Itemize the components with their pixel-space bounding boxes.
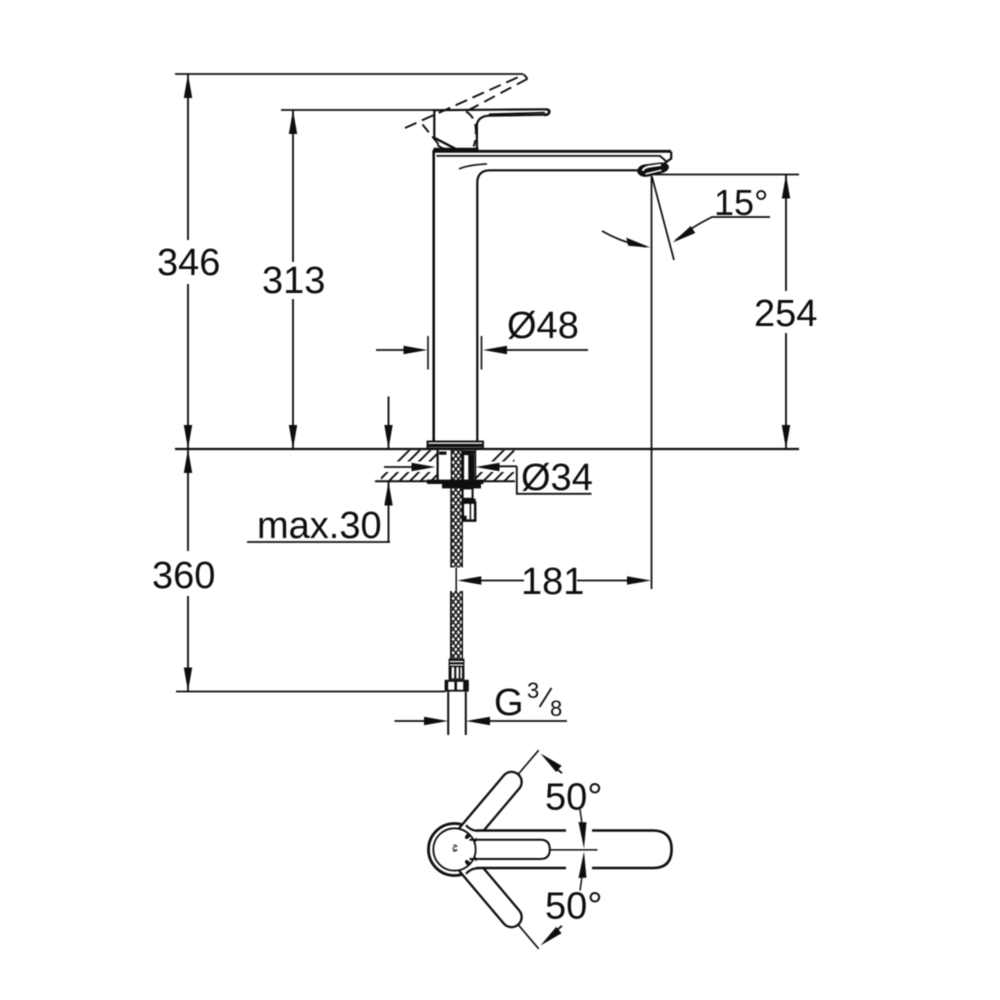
side fitting upper tube: [463, 488, 473, 498]
mounting flange bar: [427, 480, 484, 484]
15 degree slanted line: [652, 176, 674, 260]
flexible hose braid upper segment: [451, 488, 462, 567]
svg-text:max.30: max.30: [257, 505, 382, 547]
lock nut bar: [442, 484, 481, 488]
spout top edge: [433, 150, 672, 153]
leader step for diameter 34 label: [517, 466, 592, 494]
hub screw dot upper: [464, 832, 471, 840]
svg-text:G: G: [494, 682, 524, 724]
handle lever rounded tip: [544, 109, 549, 115]
dimension line 346: [187, 74, 189, 449]
side fitting band: [463, 499, 476, 503]
flexible hose braid lower segment: [451, 591, 463, 659]
raised handle dashed left edge: [423, 125, 442, 149]
faucet base plate: [428, 442, 484, 449]
swivel arc with arrow: [602, 231, 646, 247]
grohe logo mark: [453, 845, 457, 851]
witness tick right for diameter 48: [481, 336, 483, 370]
50 degree reference line upper: [474, 750, 539, 826]
50 degree reference line lower: [474, 873, 539, 949]
raised handle dashed top line: [405, 75, 524, 129]
extension line top (346 upper reference): [175, 73, 523, 75]
dimension max.30 upper arrow: [388, 397, 390, 450]
gaps in lever edges for angle arrows: [566, 828, 592, 833]
angle center line: [550, 849, 598, 851]
extension line handle top (313 upper reference): [281, 109, 436, 111]
handle lever underside inner line: [489, 113, 545, 115]
svg-text:50°: 50°: [545, 886, 602, 928]
hose break center line: [455, 568, 457, 592]
side fitting lower block: [463, 503, 475, 521]
svg-text:313: 313: [262, 260, 325, 302]
spout shoulder arc: [459, 164, 487, 169]
svg-text:254: 254: [754, 293, 817, 335]
rotated lever lower: [460, 856, 512, 918]
svg-text:8: 8: [550, 696, 562, 721]
dimension line 254: [785, 175, 787, 450]
witness tick left for diameter 48: [427, 336, 429, 370]
dimension line 313: [292, 110, 294, 449]
hose crimp collar: [449, 659, 465, 680]
mounting stud body: [463, 454, 474, 480]
spout right tip edge: [664, 152, 672, 165]
handle lever underside: [477, 115, 545, 148]
raised handle dashed bottom line: [466, 79, 528, 112]
svg-text:3: 3: [527, 678, 539, 703]
handle hub outer circle: [429, 824, 481, 876]
handle base left edge: [433, 109, 435, 138]
lever neck fillet bottom: [466, 868, 479, 874]
dimension line 181: [480, 580, 524, 582]
dimension line diameter 48: [376, 349, 405, 351]
angle arrow at center line upper: [579, 822, 587, 849]
15 degree leader line with arrow: [676, 217, 771, 241]
extension line spout outlet (254 upper reference): [654, 174, 799, 176]
dimension line G3/8: [395, 720, 426, 722]
connection tube below nut: [448, 692, 466, 735]
aerator outlet: [638, 163, 668, 176]
raised handle dashed neck curve: [466, 112, 476, 147]
dimension max.30 lower arrow and leader: [388, 482, 390, 543]
svg-text:360: 360: [152, 555, 215, 597]
rotated lever upper: [460, 782, 512, 844]
countertop surface line: [175, 448, 799, 450]
mounting hole right wall: [474, 450, 476, 481]
vertical reference line below outlet: [651, 176, 653, 589]
lever neck fillet top: [466, 825, 479, 831]
angle arrow at center line lower: [579, 852, 587, 879]
handle base slant edge: [434, 138, 456, 149]
angle arrow upper end: [541, 754, 562, 773]
hub screw dot lower: [464, 859, 471, 867]
straight lever outline: [477, 831, 672, 869]
dimension line 360: [187, 449, 189, 692]
spout second top line: [437, 156, 667, 162]
faucet body left edge: [432, 151, 435, 443]
threaded shank braid through hole: [451, 450, 461, 481]
svg-text:50°: 50°: [545, 777, 602, 819]
countertop underside line: [375, 480, 515, 482]
handle base front small arc: [437, 145, 444, 149]
dimension texts: [152, 182, 817, 603]
handle seat thick line: [434, 148, 479, 151]
countertop cross-section hatching left block: [376, 448, 538, 484]
mounting hole left wall: [437, 450, 439, 481]
mounting stud cap: [462, 450, 475, 454]
hub interior: [433, 828, 476, 871]
svg-text:181: 181: [521, 561, 584, 603]
faucet body right inner edge with spout corner radius: [477, 170, 640, 442]
svg-text:Ø48: Ø48: [507, 305, 579, 347]
svg-text:Ø34: Ø34: [521, 457, 593, 499]
label G 3/8: [494, 678, 562, 724]
raised handle dashed tip: [524, 75, 528, 79]
svg-text:346: 346: [157, 242, 220, 284]
svg-text:15°: 15°: [714, 182, 768, 223]
washer bar in hole: [439, 452, 447, 455]
connection nut G3/8: [445, 680, 469, 692]
dimension line diameter 34: [384, 466, 413, 468]
lever inner face outline: [470, 840, 550, 859]
handle hub inner circle: [433, 828, 475, 870]
extension line hose end (360 lower reference): [176, 691, 446, 693]
angle arrow lower end: [541, 927, 562, 946]
handle lever top edge: [434, 108, 546, 111]
